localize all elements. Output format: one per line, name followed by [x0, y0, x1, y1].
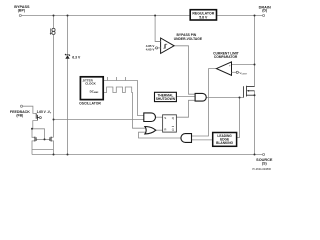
wire current source branch [53, 16, 55, 138]
wire zener branch [67, 16, 69, 155]
current source CS1 [52, 28, 55, 34]
svg-text:(BP): (BP) [18, 8, 26, 12]
wire clock ticks [108, 77, 126, 81]
svg-text:UNDER-VOLTAGE: UNDER-VOLTAGE [174, 37, 203, 41]
wire UV comparator output [174, 46, 195, 94]
pin SOURCE (S) [263, 153, 265, 155]
gate AND1 [144, 113, 156, 122]
wire current sense tap [232, 64, 255, 66]
current source arrow [50, 28, 52, 35]
svg-text:1.65 V -VT: 1.65 V -VT [37, 110, 52, 115]
wire mirror right source [51, 141, 53, 150]
wire latch Q to AND2 [176, 100, 195, 117]
wire mirror left source [32, 141, 35, 155]
wire feedback line to AND1 [54, 119, 144, 121]
svg-text:6.3 V: 6.3 V [72, 55, 81, 59]
wire mirror left drain [32, 129, 35, 138]
wire mirror top [32, 129, 45, 140]
pin FEEDBACK (FB) [20, 105, 22, 107]
svg-text:5.8 V: 5.8 V [199, 15, 208, 19]
wire thermal to AND2 [176, 96, 195, 98]
svg-text:SHUTDOWN: SHUTDOWN [156, 97, 176, 101]
svg-text:BLANKING: BLANKING [216, 141, 233, 145]
svg-text:PI-2634-020806: PI-2634-020806 [252, 167, 271, 171]
svg-text:(D): (D) [262, 9, 268, 13]
oscillator U2 box [80, 77, 103, 100]
wire MOSFET source [254, 91, 256, 155]
regulator U1 box [190, 10, 216, 20]
zener diode VR1 6.3V [65, 54, 70, 59]
svg-text:CLOCK: CLOCK [85, 82, 96, 86]
svg-text:OSCILLATOR: OSCILLATOR [79, 101, 101, 105]
wire mirror right drain [51, 136, 53, 138]
node junction dots [31, 15, 256, 156]
wire drain line [254, 16, 256, 87]
wire feedback pin [23, 106, 37, 113]
gate AND2 [195, 93, 206, 101]
pin BYPASS (BP) [19, 14, 21, 16]
gate AND3 [181, 134, 192, 143]
wire OR to latch R [156, 129, 163, 131]
pin DRAIN (D) [263, 14, 265, 16]
wire AND2 output to gate [206, 97, 243, 99]
op-amp U5 bypass pin under-voltage comparator [155, 38, 174, 53]
wire AND1 to latch S [156, 116, 163, 118]
wire gate node to LEB [237, 98, 240, 138]
thermal shutdown U3 box [155, 92, 177, 101]
wire clock [103, 81, 144, 116]
wire UV comparator input [155, 16, 161, 42]
wire mirror bottom [32, 149, 54, 154]
op-amp U6 current limit comparator [216, 62, 238, 75]
wire AND3 output to OR [139, 132, 182, 138]
svg-text:(S): (S) [262, 162, 268, 166]
transistor Q3 mirror right [50, 137, 51, 142]
transistor Q1 feedback [36, 113, 39, 120]
svg-text:(FB): (FB) [16, 114, 23, 118]
wire Q1 source down [33, 120, 38, 129]
transistor Q4 power MOSFET [244, 86, 255, 98]
wire bypass rail [22, 15, 263, 17]
wire mirror gate tie [36, 138, 50, 140]
wire LEB output to AND3 [192, 139, 213, 141]
leading edge blanking U4 box [213, 133, 237, 147]
svg-text:COMPARATOR: COMPARATOR [214, 55, 238, 59]
wire source bus [32, 154, 262, 156]
transistor Q2 mirror left [35, 137, 36, 142]
wire comparator output to AND3 [192, 69, 217, 136]
wire dcmax waveform [103, 87, 145, 128]
gate OR1 [145, 127, 156, 134]
svg-text:4.65 V: 4.65 V [146, 48, 155, 52]
latch FF1 [163, 115, 177, 132]
svg-text:S: S [164, 116, 166, 120]
